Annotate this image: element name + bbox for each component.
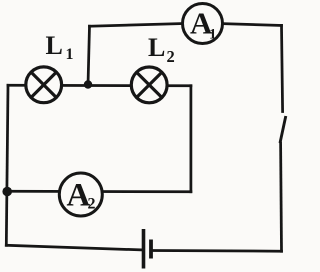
switch blade (open)	[280, 116, 286, 143]
lamp L2 (circle with X)	[131, 67, 167, 103]
lamp L1 (circle with X)	[26, 67, 62, 103]
battery cell: long plate	[142, 229, 146, 269]
wire: left rail	[6, 85, 8, 245]
svg-text:2: 2	[88, 196, 96, 213]
wire: right rail upper (top corner to switch)	[282, 25, 283, 111]
wire: top segment through A1	[90, 23, 282, 26]
wire: A2 branch (left rail node to link)	[7, 190, 191, 193]
wire: junction riser (node to top wire)	[88, 26, 90, 85]
wire: bottom-right segment (battery positive lead)	[151, 249, 282, 252]
svg-text:1: 1	[66, 46, 74, 63]
wire: lamp branch (left rail through L1 and L2)	[8, 84, 191, 87]
svg-text:2: 2	[167, 47, 175, 66]
svg-text:L: L	[148, 33, 165, 62]
svg-text:L: L	[46, 31, 63, 60]
node: junction dot at lamp branch	[84, 80, 92, 88]
wire: link from L2 down to A2 branch	[190, 86, 193, 192]
battery cell: short plate	[149, 240, 153, 259]
node: junction dot on left rail at A2 branch	[2, 187, 12, 197]
wire: bottom-left segment (battery negative lead)	[6, 245, 143, 250]
svg-text:1: 1	[209, 27, 217, 43]
ammeter A1 (circle)	[183, 4, 223, 44]
wire: right rail lower (switch to bottom corner)	[279, 143, 283, 251]
ammeter A2 (circle)	[59, 173, 102, 216]
